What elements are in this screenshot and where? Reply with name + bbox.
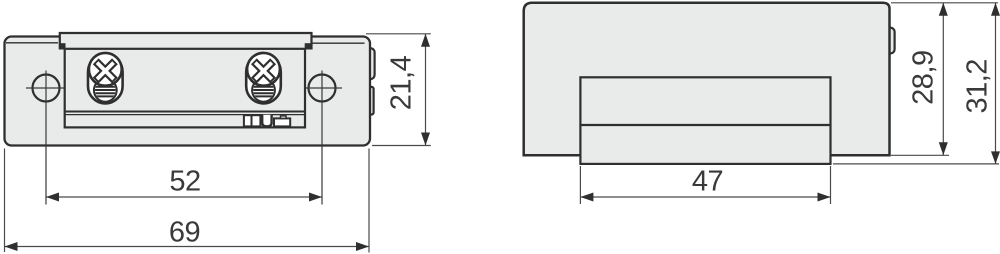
housing block xyxy=(524,3,890,155)
dim 28,9 bottom extension line xyxy=(891,154,949,156)
svg-text:28,9: 28,9 xyxy=(908,50,940,104)
latch cell divider xyxy=(251,115,253,126)
hole left centerline vertical (52 extension) xyxy=(45,71,47,205)
dim 31,2 line xyxy=(995,3,997,164)
dim 21,4 top extension line xyxy=(366,33,431,35)
latch U element xyxy=(262,115,271,127)
dim 69 arrow right xyxy=(356,242,369,251)
dim 69 arrow left xyxy=(5,242,18,251)
hole right crosshair horizontal xyxy=(302,87,342,89)
dim 47 left extension line xyxy=(579,166,581,204)
lip step notch left xyxy=(59,43,65,49)
screw left: phillips X outline xyxy=(96,61,115,80)
lip step notch right xyxy=(305,43,312,49)
latch cell box xyxy=(244,115,261,126)
screw right: head circle xyxy=(247,53,280,86)
dim 31,2 arrow down xyxy=(991,151,1000,164)
latch notch on sunken rect xyxy=(281,116,287,119)
chamfer line right xyxy=(313,42,365,44)
screw left: head circle xyxy=(89,53,122,86)
dim 47 arrow left xyxy=(580,193,593,202)
dim 21,4 line xyxy=(425,34,427,146)
dim 21,4 arrow up xyxy=(421,34,430,47)
svg-text:47: 47 xyxy=(692,166,723,198)
screw right: thread circle xyxy=(252,79,275,102)
strike box divider xyxy=(580,124,830,126)
dim 21,4 bottom extension line xyxy=(372,145,431,147)
top extension line xyxy=(891,2,998,4)
dim 28,9 arrow up xyxy=(939,3,948,16)
faceplate xyxy=(5,37,371,146)
hole right centerline vertical (52 extension) xyxy=(321,71,323,205)
dim 69 right extension line xyxy=(368,149,370,253)
svg-text:69: 69 xyxy=(169,217,200,249)
dim 52 arrow right xyxy=(309,193,322,202)
screw right: phillips X white core xyxy=(255,63,272,80)
dim 31,2 bottom extension line xyxy=(833,163,999,165)
latch sunken rect xyxy=(274,118,290,126)
screw left: slot obround xyxy=(88,55,123,104)
dim 52 arrow left xyxy=(46,193,59,202)
dim 69 left extension line xyxy=(4,149,6,253)
band line A xyxy=(65,111,305,113)
screw left: thread lines xyxy=(93,87,118,97)
dim 21,4 arrow down xyxy=(421,133,430,146)
screw left: phillips X white core xyxy=(97,63,114,80)
svg-text:52: 52 xyxy=(169,166,200,198)
latch tab upper (right edge of faceplate) xyxy=(365,48,375,79)
dim 47 line xyxy=(580,196,830,198)
screw right: thread lines xyxy=(251,87,276,97)
latch tab lower (right edge of faceplate) xyxy=(365,87,374,115)
svg-text:21,4: 21,4 xyxy=(386,55,418,110)
dim 47 arrow right xyxy=(818,193,831,202)
svg-text:31,2: 31,2 xyxy=(962,59,994,113)
dim 28,9 arrow down xyxy=(939,142,948,155)
hole left crosshair horizontal xyxy=(26,87,66,89)
dim 52 line xyxy=(46,196,322,198)
strike box (protruding) xyxy=(580,77,830,164)
band line B xyxy=(65,114,305,116)
dim 31,2 arrow up xyxy=(991,3,1000,16)
side tab (right edge of housing) xyxy=(884,28,895,54)
chamfer line left xyxy=(6,42,58,44)
mounting hole left xyxy=(33,75,60,102)
screw left: thread circle xyxy=(94,79,117,102)
dim 28,9 line xyxy=(942,3,944,156)
screw right: slot obround xyxy=(246,55,281,104)
screw right: phillips X outline xyxy=(254,61,273,80)
mounting hole right xyxy=(309,75,336,102)
dim 69 line xyxy=(5,246,370,248)
dim 47 right extension line xyxy=(830,166,832,204)
body inner panel xyxy=(65,49,305,128)
body lip (protrudes above plate) xyxy=(60,33,312,50)
